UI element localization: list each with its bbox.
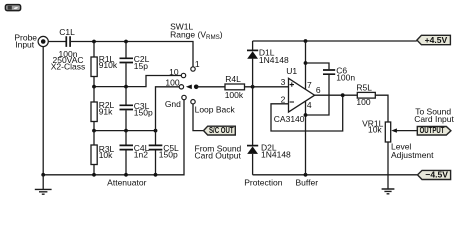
- svg-text:10: 10: [169, 67, 179, 77]
- pin 4 wire: [305, 101, 307, 175]
- svg-text:U1: U1: [286, 66, 297, 76]
- svg-text:−4.5V: −4.5V: [425, 170, 448, 180]
- pin 7 wire: [305, 41, 307, 90]
- svg-text:CA3140: CA3140: [274, 114, 305, 124]
- node C6 tap: [304, 61, 308, 65]
- tag +4.5V: [417, 35, 451, 45]
- svg-text:Card Output: Card Output: [195, 150, 242, 160]
- svg-text:X2-Class: X2-Class: [51, 61, 85, 71]
- wire Loop Back to S/C OUT tag: [193, 104, 203, 131]
- svg-text:Attenuator: Attenuator: [107, 177, 146, 187]
- logo EPE badge top-left: [5, 5, 20, 11]
- tag OUTPUT: [417, 125, 451, 135]
- svg-text:Input: Input: [15, 40, 35, 50]
- wire bottom ground rail to switch Gnd contact: [43, 100, 184, 175]
- svg-text:150p: 150p: [159, 150, 178, 160]
- pin 6 output wire: [315, 94, 358, 96]
- svg-text:OUTPUT: OUTPUT: [420, 125, 445, 135]
- wire tap row 1 to switch contact 10: [94, 76, 181, 87]
- capacitor C4L: [120, 131, 134, 175]
- svg-text:100n: 100n: [336, 73, 355, 83]
- svg-text:1N4148: 1N4148: [261, 150, 291, 160]
- wire tap row 2: [94, 130, 156, 132]
- svg-text:4: 4: [307, 100, 312, 110]
- svg-text:C1L: C1L: [59, 27, 75, 37]
- svg-text:Gnd: Gnd: [165, 99, 181, 109]
- node ground rail left: [41, 173, 45, 177]
- node pin7 rail: [304, 39, 308, 43]
- tag S/C OUT: [204, 125, 236, 135]
- svg-text:7: 7: [307, 80, 312, 90]
- capacitor C6: [306, 63, 336, 115]
- resistor R1L: [91, 42, 97, 87]
- tag -4.5V: [418, 170, 451, 180]
- potentiometer VR1L: [385, 122, 417, 189]
- switch contact Loop Back: [191, 100, 195, 104]
- node C5L top junction: [154, 129, 158, 133]
- node C4L bottom: [124, 173, 128, 177]
- ground symbol right: [382, 189, 395, 194]
- switch contact 100: [179, 85, 183, 89]
- node at R1L top: [92, 40, 96, 44]
- probe input connector: [38, 36, 48, 46]
- wire -4.5V rail: [253, 174, 418, 176]
- svg-text:910k: 910k: [99, 60, 118, 70]
- capacitor C2L: [120, 42, 134, 87]
- svg-text:R4L: R4L: [225, 74, 241, 84]
- node R1L R2L junction: [92, 85, 96, 89]
- svg-text:15p: 15p: [134, 61, 148, 71]
- svg-text:R5L: R5L: [356, 82, 372, 92]
- diode D2L: [247, 87, 258, 175]
- svg-text:Card Input: Card Input: [414, 114, 454, 124]
- ground symbol left: [35, 175, 52, 194]
- wire top rail C1L to switch contact 1: [71, 42, 193, 67]
- svg-text:100: 100: [165, 77, 179, 87]
- node R3L bottom: [92, 173, 96, 177]
- node C6 to pin4: [304, 113, 308, 117]
- svg-text:100k: 100k: [225, 90, 244, 100]
- wire probe ground drop: [42, 47, 44, 175]
- node at C2L top: [124, 40, 128, 44]
- node C3L C4L junction: [124, 129, 128, 133]
- wire pole to R4L: [196, 86, 225, 88]
- switch SW1L pole wiper arrow: [186, 85, 199, 90]
- resistor R5L: [357, 92, 388, 122]
- svg-text:10k: 10k: [99, 150, 113, 160]
- node feedback output tap: [341, 93, 345, 97]
- resistor R3L: [91, 131, 97, 175]
- svg-text:Adjustment: Adjustment: [391, 150, 434, 160]
- capacitor C5L: [149, 131, 163, 175]
- capacitor C3L: [120, 87, 134, 131]
- wire tap row 2 to switch contact 100: [156, 87, 180, 131]
- node C2L C3L junction: [124, 85, 128, 89]
- resistor R2L: [91, 87, 97, 131]
- op-amp U1: [289, 78, 315, 112]
- svg-text:1n2: 1n2: [134, 150, 148, 160]
- capacitor C1L: [66, 36, 70, 47]
- wire +4.5V rail: [253, 40, 417, 42]
- svg-text:Protection: Protection: [244, 177, 283, 187]
- wire connector to C1L: [48, 41, 65, 43]
- wire feedback pin2 loop: [271, 95, 343, 131]
- svg-text:+4.5V: +4.5V: [425, 35, 448, 45]
- svg-text:Loop Back: Loop Back: [195, 105, 236, 115]
- svg-text:S/C OUT: S/C OUT: [209, 125, 234, 135]
- svg-text:6: 6: [316, 85, 321, 95]
- svg-text:150p: 150p: [134, 107, 153, 117]
- node diode junction: [251, 85, 255, 89]
- svg-text:100: 100: [356, 97, 370, 107]
- node R2L R3L junction: [92, 129, 96, 133]
- svg-text:1N4148: 1N4148: [259, 55, 289, 65]
- switch contact 10: [181, 73, 185, 77]
- switch contact 1: [191, 67, 195, 71]
- node C5L bottom: [154, 173, 158, 177]
- svg-text:3: 3: [281, 77, 286, 87]
- resistor R4L: [225, 84, 289, 90]
- node pin4 rail: [304, 173, 308, 177]
- svg-text:2: 2: [281, 95, 286, 105]
- switch contact Gnd: [182, 95, 186, 99]
- svg-text:91k: 91k: [99, 107, 113, 117]
- svg-text:1: 1: [195, 59, 200, 69]
- svg-text:Buffer: Buffer: [296, 177, 319, 187]
- svg-text:10k: 10k: [368, 125, 382, 135]
- diode D1L: [247, 41, 258, 87]
